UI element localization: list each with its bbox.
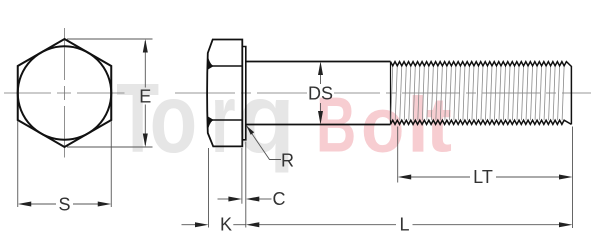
- svg-text:DS: DS: [308, 84, 333, 104]
- svg-text:R: R: [281, 151, 294, 171]
- svg-text:S: S: [58, 195, 70, 215]
- svg-text:r: r: [211, 63, 236, 173]
- svg-text:K: K: [220, 215, 232, 235]
- svg-text:L: L: [399, 215, 409, 235]
- svg-text:t: t: [426, 81, 452, 169]
- svg-text:E: E: [139, 87, 151, 107]
- svg-text:C: C: [273, 189, 286, 209]
- svg-text:LT: LT: [473, 167, 493, 187]
- svg-text:o: o: [150, 63, 198, 173]
